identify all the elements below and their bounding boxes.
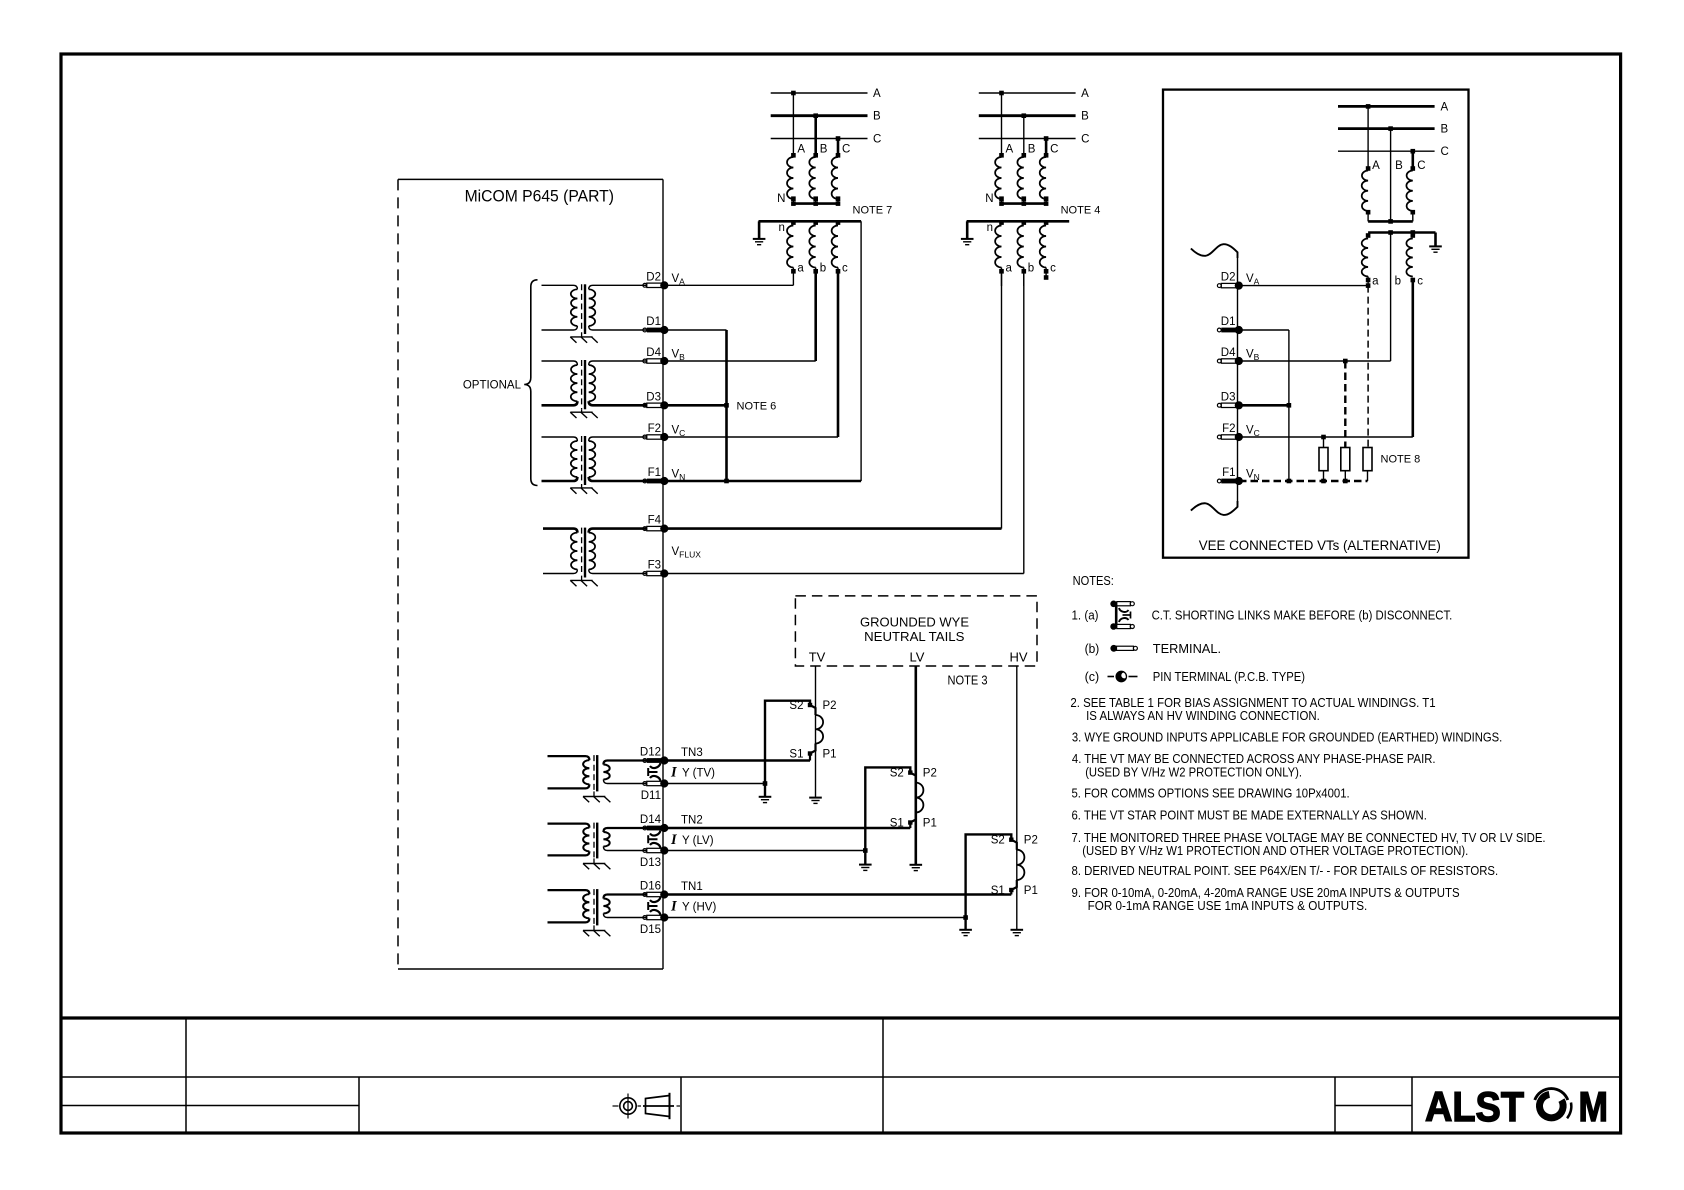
svg-text:D2: D2: [646, 271, 661, 283]
terminal D15: [640, 913, 669, 936]
wire D15 to ground riser: [665, 917, 966, 919]
VT voltage input VC: [542, 436, 647, 494]
svg-text:Y (HV): Y (HV): [682, 902, 716, 914]
wire VFLUX F4 to bank2 a: [665, 527, 1002, 530]
svg-text:D11: D11: [641, 790, 661, 802]
three-phase source bus + wye VT bank NOTE 4: [961, 88, 1100, 275]
svg-text:NOTE 6: NOTE 6: [737, 401, 777, 413]
terminal D3: [643, 391, 669, 409]
svg-text:TN2: TN2: [681, 815, 703, 827]
svg-text:A: A: [797, 144, 805, 156]
ground HV tail: [1011, 929, 1024, 931]
svg-text:D12: D12: [640, 747, 661, 759]
VEE secondary winding a: [1366, 233, 1371, 238]
VEE neutral tie D1-F1: [1288, 330, 1290, 481]
BCT on HV tail: [1009, 838, 1024, 895]
bank1 c output: [837, 272, 840, 437]
VEE secondary b line: [1390, 233, 1392, 362]
svg-text:D4: D4: [1221, 347, 1236, 359]
BCT on LV tail: [908, 770, 923, 828]
svg-text:6. THE VT STAR POINT MUST BE M: 6. THE VT STAR POINT MUST BE MADE EXTERN…: [1072, 808, 1427, 823]
wire LV neutral tail: [914, 666, 917, 865]
terminal D16: [640, 881, 669, 899]
svg-text:C: C: [1441, 146, 1449, 158]
svg-text:D13: D13: [640, 857, 661, 869]
svg-text:3. WYE GROUND INPUTS APPLICABL: 3. WYE GROUND INPUTS APPLICABLE FOR GROU…: [1072, 730, 1502, 745]
terminal D1: [643, 316, 669, 334]
svg-text:D2: D2: [1221, 272, 1236, 284]
wire bank1 n drop: [860, 221, 862, 481]
svg-text:c: c: [1050, 263, 1056, 275]
svg-text:Y (TV): Y (TV): [682, 768, 715, 780]
terminal D4: [643, 347, 669, 365]
svg-text:n: n: [987, 222, 993, 234]
svg-text:D3: D3: [646, 391, 661, 403]
icon CT shorting links: [1110, 601, 1134, 630]
resistor R3: [1363, 448, 1372, 471]
svg-text:TN3: TN3: [681, 747, 703, 759]
wire R1 top lead: [1323, 437, 1325, 448]
wire VC F2 to bank1 c: [665, 436, 839, 438]
svg-text:F3: F3: [648, 560, 661, 572]
wire TV neutral tail: [815, 666, 817, 798]
svg-text:(USED BY V/Hz W1 PROTECTION AN: (USED BY V/Hz W1 PROTECTION AND OTHER VO…: [1082, 843, 1468, 858]
svg-text:Y (LV): Y (LV): [682, 835, 714, 847]
CT shorting link D12/D11: [648, 763, 660, 781]
svg-text:N: N: [985, 193, 993, 205]
svg-text:S1: S1: [789, 749, 803, 761]
svg-text:M: M: [1579, 1083, 1609, 1130]
wire VN F1 to bank1 n: [665, 480, 862, 483]
VEE terminal F2: [1217, 423, 1243, 441]
CT shorting link D16/D15: [648, 897, 660, 915]
VEE wire D1: [1239, 329, 1289, 331]
junction D13/LV-S2 riser: [863, 848, 868, 853]
first-angle projection symbol: [613, 1093, 681, 1119]
VEE junction VB resistor: [1343, 359, 1348, 364]
junction D15/HV-S2 riser: [963, 915, 968, 920]
svg-text:P2: P2: [923, 768, 937, 780]
VEE junction VC resistor: [1321, 435, 1326, 440]
svg-text:P1: P1: [823, 749, 837, 761]
svg-text:B: B: [1081, 111, 1089, 123]
CT current input TN2: [548, 823, 647, 870]
svg-text:A: A: [873, 88, 881, 100]
VEE bus B: [1338, 127, 1435, 130]
VEE terminal D4: [1217, 347, 1243, 365]
svg-text:D1: D1: [646, 316, 661, 328]
svg-text:S2: S2: [991, 835, 1005, 847]
VEE primary winding A: [1366, 166, 1371, 171]
svg-text:A: A: [1006, 144, 1014, 156]
svg-text:c: c: [842, 263, 848, 275]
svg-text:C: C: [842, 144, 850, 156]
svg-text:F2: F2: [648, 423, 661, 435]
ground LV S2 riser: [859, 864, 872, 866]
VEE tap B: [1388, 126, 1393, 131]
icon pin terminal: [1108, 671, 1138, 681]
svg-text:PIN TERMINAL (P.C.B. TYPE): PIN TERMINAL (P.C.B. TYPE): [1153, 669, 1305, 684]
svg-text:(USED BY V/Hz W2 PROTECTION ON: (USED BY V/Hz W2 PROTECTION ONLY).: [1085, 765, 1302, 780]
svg-text:F1: F1: [1222, 467, 1235, 479]
VEE junction VN/R1: [1321, 479, 1326, 484]
VEE junction VN/D1: [1287, 479, 1292, 484]
svg-text:P1: P1: [1024, 885, 1038, 897]
VT voltage input VFLUX: [543, 528, 647, 587]
terminal F4: [643, 515, 669, 533]
svg-text:NOTE 4: NOTE 4: [1061, 204, 1101, 216]
svg-text:8. DERIVED NEUTRAL POINT. SEE: 8. DERIVED NEUTRAL POINT. SEE P64X/EN T/…: [1072, 863, 1499, 878]
VEE break squiggle bottom: [1191, 501, 1238, 515]
terminal D11: [641, 779, 669, 802]
svg-text:5. FOR COMMS OPTIONS SEE DRAW: 5. FOR COMMS OPTIONS SEE DRAWING 10Px400…: [1072, 785, 1350, 800]
svg-text:LV: LV: [910, 650, 925, 665]
svg-text:C: C: [1417, 160, 1425, 172]
icon terminal: [1110, 645, 1137, 652]
MiCOM P645 relay boundary box: [398, 179, 663, 969]
VEE terminal D2: [1217, 272, 1243, 290]
junction D11/TV-S2 riser: [763, 781, 768, 786]
wire D1 to junction: [665, 329, 727, 331]
VEE wire D3: [1239, 404, 1289, 407]
svg-text:A: A: [1441, 101, 1449, 113]
svg-text:S1: S1: [991, 885, 1005, 897]
svg-text:B: B: [820, 144, 828, 156]
svg-text:a: a: [1006, 263, 1013, 275]
VEE tap A: [1366, 104, 1371, 109]
svg-text:TV: TV: [809, 650, 826, 665]
BCT on TV tail: [808, 703, 823, 761]
wire R3 top lead dashed: [1367, 286, 1369, 448]
bank2 a output: [1001, 272, 1003, 286]
svg-text:D14: D14: [640, 814, 662, 826]
svg-text:a: a: [1372, 275, 1379, 287]
CT shorting link D14/D13: [648, 831, 660, 849]
svg-text:S2: S2: [890, 768, 904, 780]
svg-text:FOR 0-1mA RANGE USE 1mA INPUTS: FOR 0-1mA RANGE USE 1mA INPUTS & OUTPUTS…: [1088, 898, 1368, 913]
wire LV S2 bracket: [865, 767, 910, 864]
VEE secondary bus earth stub: [1434, 233, 1437, 247]
svg-text:B: B: [1441, 124, 1449, 136]
wire R2 top lead dashed: [1344, 361, 1346, 448]
svg-text:IS ALWAYS AN HV WINDING CONNEC: IS ALWAYS AN HV WINDING CONNECTION.: [1086, 708, 1320, 723]
VEE terminal D1: [1217, 316, 1243, 334]
VEE break squiggle top: [1191, 244, 1238, 258]
svg-text:n: n: [778, 222, 784, 234]
wire TN1 D16 to HV CT S1: [665, 893, 1012, 896]
svg-text:MiCOM P645 (PART): MiCOM P645 (PART): [465, 188, 614, 206]
wire TN2 D14 to LV CT S1: [665, 827, 911, 830]
wire TV S2 bracket: [765, 701, 810, 797]
svg-text:NOTE 8: NOTE 8: [1381, 454, 1421, 466]
svg-text:B: B: [1395, 160, 1403, 172]
svg-text:S1: S1: [890, 818, 904, 830]
VEE junction D3 tie: [1287, 403, 1292, 408]
VEE terminal D3: [1217, 391, 1243, 409]
svg-text:ALST: ALST: [1425, 1083, 1524, 1130]
svg-text:B: B: [873, 111, 881, 123]
bank2 b output: [1023, 272, 1025, 286]
svg-text:D1: D1: [1221, 316, 1236, 328]
bank2 c stub: [1045, 272, 1047, 278]
svg-text:b: b: [1395, 275, 1401, 287]
wire D13 to ground riser: [665, 850, 866, 852]
svg-text:F1: F1: [648, 467, 661, 479]
svg-text:TERMINAL.: TERMINAL.: [1153, 641, 1221, 656]
svg-text:TN1: TN1: [681, 881, 703, 893]
svg-text:(c): (c): [1085, 669, 1100, 684]
svg-text:GROUNDED WYE: GROUNDED WYE: [860, 615, 969, 630]
resistor R1: [1319, 448, 1328, 471]
bank1 a output: [792, 272, 794, 285]
VEE primary common bus: [1368, 220, 1413, 223]
GROUNDED WYE NEUTRAL TAILS dashed box: [795, 596, 1037, 666]
svg-text:NOTES:: NOTES:: [1073, 573, 1114, 588]
terminal D14: [640, 814, 669, 832]
wire HV neutral tail: [1016, 666, 1018, 930]
VEE c output to VC: [1412, 280, 1415, 437]
svg-text:c: c: [1417, 275, 1423, 287]
svg-text:P1: P1: [923, 818, 937, 830]
VEE primary winding C: [1411, 166, 1416, 171]
svg-text:D15: D15: [640, 924, 661, 936]
VT voltage input VB: [542, 360, 647, 418]
terminal F1: [643, 467, 669, 485]
terminal D13: [640, 846, 669, 869]
resistor R2: [1341, 448, 1350, 471]
junction NOTE 6: [724, 403, 729, 408]
terminal F2: [643, 423, 669, 441]
ground LV tail: [910, 864, 923, 866]
svg-text:D3: D3: [1221, 391, 1236, 403]
terminal D12: [640, 747, 669, 765]
ALSTOM logo: [1425, 1083, 1608, 1130]
VEE secondary bus: [1368, 231, 1435, 234]
CT current input TN3: [548, 755, 647, 802]
ground TV S2 riser: [759, 796, 772, 798]
svg-text:a: a: [797, 263, 804, 275]
ground VEE secondary: [1429, 245, 1442, 247]
svg-text:F4: F4: [648, 515, 662, 527]
ground HV S2 riser: [959, 929, 972, 931]
svg-text:C: C: [873, 134, 881, 146]
svg-text:D4: D4: [646, 347, 661, 359]
VT voltage input VA: [542, 284, 647, 342]
svg-text:b: b: [1028, 263, 1034, 275]
svg-text:NOTE 3: NOTE 3: [948, 674, 988, 688]
svg-text:C: C: [1050, 144, 1058, 156]
VEE junction a: [1366, 283, 1371, 288]
VEE secondary winding c: [1411, 233, 1416, 238]
wire bank2 b drop: [1023, 272, 1025, 574]
wire neutral tie D1-F1 (NOTE 6): [725, 330, 728, 481]
VEE wire VC to c: [1239, 436, 1413, 438]
VEE junction VN/R2: [1343, 479, 1348, 484]
svg-text:HV: HV: [1009, 650, 1027, 665]
svg-text:C: C: [1081, 134, 1089, 146]
svg-text:C.T. SHORTING LINKS MAKE BEFOR: C.T. SHORTING LINKS MAKE BEFORE (b) DISC…: [1152, 608, 1453, 623]
svg-text:1. (a): 1. (a): [1072, 608, 1099, 623]
wire VA D2 to bank1 a: [665, 284, 794, 286]
svg-text:F2: F2: [1222, 423, 1235, 435]
bank1 b output: [814, 272, 817, 361]
VEE terminal line: [1237, 258, 1239, 501]
svg-text:P2: P2: [823, 700, 837, 712]
wire VB D4 to bank1 b: [665, 360, 816, 362]
OPTIONAL brace: [463, 280, 538, 486]
VEE terminal F1: [1217, 467, 1243, 485]
svg-text:D16: D16: [640, 881, 661, 893]
ground TV tail: [809, 797, 822, 799]
svg-text:P2: P2: [1024, 835, 1038, 847]
terminal D2: [643, 271, 669, 289]
three-phase source bus + wye VT bank NOTE 7: [753, 88, 892, 275]
svg-text:OPTIONAL: OPTIONAL: [463, 380, 522, 392]
VEE wire VN dashed: [1239, 480, 1368, 483]
svg-text:NOTE 7: NOTE 7: [853, 204, 893, 216]
wire D3 to NOTE 6 junction: [665, 404, 727, 407]
wire bank2 a drop: [1001, 272, 1003, 529]
svg-text:NEUTRAL TAILS: NEUTRAL TAILS: [864, 629, 965, 644]
VEE tap C: [1411, 149, 1416, 154]
wire HV S2 bracket: [966, 834, 1012, 929]
svg-text:A: A: [1372, 160, 1380, 172]
CT current input TN1: [548, 889, 647, 936]
wire VFLUX F3 to bank2 b: [665, 573, 1024, 575]
wire TN3 D12 to TV CT S1: [665, 759, 811, 762]
svg-text:B: B: [1028, 144, 1036, 156]
VEE wire VB to b: [1239, 360, 1391, 362]
terminal F3: [643, 560, 669, 578]
svg-text:N: N: [777, 193, 785, 205]
svg-text:(b): (b): [1085, 641, 1100, 656]
VEE CONNECTED VTs box: [1163, 90, 1469, 558]
VEE bus C: [1338, 150, 1435, 152]
svg-text:A: A: [1081, 88, 1089, 100]
junction F1/D1 tie: [724, 479, 729, 484]
VEE wire VA to a: [1239, 285, 1368, 287]
svg-text:VEE CONNECTED VTs (ALTERNATIVE: VEE CONNECTED VTs (ALTERNATIVE): [1199, 538, 1441, 553]
wire D11 to ground riser: [665, 783, 766, 785]
VEE bus A: [1338, 105, 1435, 108]
svg-text:b: b: [820, 263, 826, 275]
